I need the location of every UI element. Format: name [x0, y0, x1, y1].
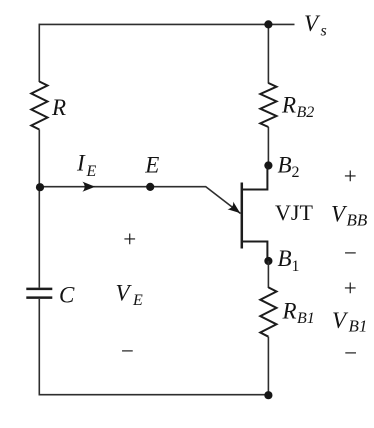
svg-text:V: V: [332, 308, 349, 333]
svg-text:I: I: [76, 151, 86, 176]
svg-text:C: C: [59, 283, 75, 308]
wire right rail between B1 and RB1: [267, 261, 269, 288]
svg-text:+: +: [344, 164, 357, 189]
svg-text:+: +: [123, 226, 136, 251]
node B1: [264, 257, 272, 265]
svg-text:BB: BB: [347, 211, 368, 230]
svg-text:B1: B1: [297, 310, 315, 327]
capacitor C: [26, 288, 52, 291]
svg-text:−: −: [344, 241, 357, 266]
svg-text:1: 1: [292, 258, 300, 275]
wire left rail middle: [38, 130, 40, 288]
wire emitter diagonal: [206, 187, 241, 214]
svg-text:V: V: [304, 11, 321, 36]
wire right rail between RB2 and B2: [267, 127, 269, 167]
svg-text:+: +: [344, 276, 357, 301]
current arrow IE: [82, 182, 95, 192]
svg-text:s: s: [321, 23, 327, 40]
transistor VJT base-2 lead: [242, 166, 267, 190]
wire emitter horizontal: [39, 186, 206, 188]
wire bottom rail: [39, 394, 268, 396]
node E: [146, 183, 154, 191]
node top Vs: [264, 20, 272, 28]
resistor RB1: [260, 287, 276, 336]
node bottom junction: [264, 391, 272, 399]
svg-text:R: R: [281, 93, 296, 118]
wire left rail lower: [38, 299, 40, 396]
svg-text:2: 2: [292, 164, 300, 181]
emitter arrowhead: [228, 202, 241, 214]
svg-text:−: −: [121, 339, 134, 364]
svg-text:R: R: [282, 299, 297, 324]
wire top rail: [39, 23, 294, 25]
svg-text:E: E: [132, 292, 143, 309]
resistor R: [31, 82, 47, 130]
wire right rail upper: [267, 24, 269, 83]
svg-text:E: E: [86, 163, 97, 180]
transistor VJT bar: [241, 183, 244, 249]
svg-text:B: B: [278, 153, 292, 178]
svg-text:V: V: [116, 280, 133, 305]
svg-text:B1: B1: [349, 317, 368, 336]
svg-text:B2: B2: [297, 104, 315, 121]
node junction left: [36, 183, 44, 191]
resistor RB2: [260, 83, 276, 127]
svg-text:E: E: [144, 153, 159, 178]
node B2: [264, 161, 272, 169]
svg-text:VJT: VJT: [275, 200, 313, 225]
svg-text:V: V: [331, 202, 348, 227]
svg-text:−: −: [344, 341, 357, 366]
svg-text:R: R: [51, 95, 66, 120]
transistor VJT base-1 lead: [242, 242, 267, 262]
wire right rail lower: [267, 337, 269, 396]
svg-text:B: B: [278, 246, 292, 271]
wire left rail upper: [38, 24, 40, 82]
